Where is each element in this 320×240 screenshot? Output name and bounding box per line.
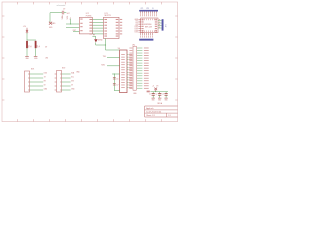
connector SV2 box [57,71,62,93]
X4 pin name [121,76,125,79]
svg-text:TX: TX [44,76,46,78]
svg-text:GND: GND [71,88,75,90]
connector X4 box [120,50,127,93]
wire [73,31,79,33]
pin label [153,14,156,16]
pin name [155,29,157,32]
title block left [144,106,146,117]
pin label [149,35,152,37]
pin name [141,25,143,28]
svg-text:SDA: SDA [71,71,74,74]
frame tick bottom 7 [113,119,115,121]
svg-text:VCC: VCC [67,13,71,15]
frame tick top 10 [161,2,163,4]
JP2 pin name [129,84,132,87]
header pin [141,33,143,35]
ground [152,97,155,99]
frame tick top 5 [81,2,83,4]
ground [34,56,38,58]
frame tick right 3 [175,57,177,59]
pin label [143,14,146,16]
SV2 left stub [55,85,57,87]
wire [92,18,103,20]
pin number [141,30,144,32]
IC2 pin name [89,21,92,24]
IC2 pin name [89,18,92,21]
pin header JP4 bar [162,19,164,30]
pin label [143,35,146,37]
svg-text:Sheet: 1/1: Sheet: 1/1 [146,114,155,117]
JP2 net label [137,67,142,70]
pin number [149,19,152,21]
frame tick top 7 [113,2,115,4]
X4 pin label [129,63,132,66]
svg-text:RX: RX [44,80,46,82]
JP2 net label [137,79,142,82]
frame tick bottom 5 [81,119,83,121]
frame tick right 5 [175,99,177,101]
svg-text:C6: C6 [116,78,118,80]
pin label [155,14,158,16]
svg-text:1/1: 1/1 [168,115,171,117]
frame tick bottom 2 [33,119,35,121]
IC3 pin label right [120,32,122,35]
header pin [139,11,141,13]
X4 pin stub [127,84,129,86]
JP2 net label [137,77,142,80]
U1 left pin [138,26,140,28]
wire [66,23,79,25]
IC3 pin name [104,18,107,21]
svg-text:GND: GND [158,99,161,101]
wire [112,73,120,75]
X4 pin stub [127,54,129,56]
pin number [159,26,160,29]
IC2 pin name [80,29,82,32]
X4 pin name [121,73,125,76]
IC3 pin label right [120,24,122,27]
svg-text:+3: +3 [152,85,154,87]
svg-text:GND: GND [26,58,30,60]
X4 pin label [129,66,132,69]
svg-text:SCL: SCL [67,16,69,20]
pin number [159,23,160,26]
svg-text:SCL: SCL [71,76,74,78]
svg-text:JP1: JP1 [140,8,143,10]
wire [62,85,71,87]
JP2 pin name [129,52,132,55]
IC2 pin name [89,30,92,33]
SV2 left stub [55,81,57,83]
wire [165,92,167,94]
svg-text:5V: 5V [71,84,73,86]
JP2 value label [144,82,149,85]
wire [92,24,103,26]
supply +3V3 arrow [154,88,157,91]
JP2 value label [144,47,149,50]
header pin [147,33,149,35]
JP2 pin name [129,77,132,80]
X4 pin label [129,53,132,56]
svg-text:REV A: REV A [157,102,163,105]
svg-text:GND: GND [152,99,155,101]
pin label [141,35,144,37]
junction [70,23,71,24]
wire [70,19,72,24]
U1 left pin [138,24,140,26]
wire [96,44,106,46]
header pin [153,11,155,13]
pin label [151,14,154,16]
IC3 pin label right [120,18,122,21]
pin name [155,22,157,25]
wire [66,27,79,29]
pin number [155,19,158,21]
X4 pin label [129,71,132,74]
JP2 value label [144,77,149,80]
capacitor C1 [152,93,155,95]
SV2 pin [60,77,61,80]
JP2 value label [144,84,149,87]
svg-text:C7: C7 [116,84,118,86]
wire [158,20,162,22]
X4 pin stub [127,59,129,61]
pin name [155,25,157,28]
JP2 net label [137,72,142,75]
pin name [141,20,143,23]
X4 pin stub [127,66,129,68]
wire [62,77,71,79]
JP2 pin name [129,87,132,90]
pin number [153,30,156,32]
svg-text:1k: 1k [30,46,32,48]
pin name [155,27,157,30]
svg-text:IO12: IO12 [135,26,139,28]
JP2 pin name [129,62,132,65]
JP2 net label [137,57,142,60]
wire [150,91,168,93]
IC3 pin name [104,30,107,33]
svg-text:GND: GND [44,88,48,90]
wire [106,49,120,51]
SV2 pin [60,85,61,88]
frame tick right 2 [175,36,177,38]
frame tick bottom 9 [145,119,147,121]
wire [95,36,97,39]
SV1 pin [28,73,29,76]
JP2 value label [144,54,149,57]
X4 pin stub [127,56,129,58]
frame tick bottom 6 [97,119,99,121]
pin name [155,23,157,26]
pin name [141,31,143,34]
frame border [2,2,178,122]
IC2 pin name [89,32,92,35]
svg-text:ESP-12E: ESP-12E [145,27,153,29]
wire [105,39,107,51]
SV2 pin [60,89,61,92]
module U1 box [141,18,158,33]
X4 pin label [129,76,132,79]
pin label [151,35,154,37]
frame tick left 2 [2,36,4,38]
wire [159,92,161,94]
X4 pin stub [127,79,129,81]
IC3 pin name [104,32,107,35]
wire [158,25,162,27]
svg-text:GND: GND [52,23,57,25]
wire [62,81,71,83]
JP2 pin name [129,59,132,62]
IC2 pin name [80,25,82,28]
ground arrow [94,39,97,42]
wire [158,22,162,24]
svg-text:GND: GND [76,71,80,73]
svg-text:GND: GND [34,58,38,60]
pin label [145,14,148,16]
svg-text:MCP23: MCP23 [105,15,111,17]
JP2 net label [137,59,142,62]
wire [92,33,103,35]
frame tick bottom 3 [49,119,51,121]
wire [152,95,154,97]
svg-text:IO15: IO15 [135,32,139,34]
frame tick left 3 [2,57,4,59]
U1 left pin [138,20,140,22]
pin number [93,33,94,36]
pin label [139,35,142,37]
JP2 value label [144,59,149,62]
IC3 pin name right [116,32,119,35]
JP2 pin name [129,74,132,77]
capacitor C9 [61,11,63,15]
frame tick top 9 [145,2,147,4]
pin number [151,19,154,21]
JP2 value label [144,62,149,65]
X4 pin name [121,79,125,82]
JP2 net label [137,49,142,52]
header pin [143,33,145,35]
frame tick top 3 [49,2,51,4]
wire [113,74,115,91]
header pin [143,11,145,13]
frame tick right 4 [175,78,177,80]
JP2 value label [144,52,149,55]
pin name [141,29,143,32]
SV1 pin [28,89,29,92]
JP2 value label [144,79,149,82]
X4 pin stub [127,76,129,78]
pin label [149,14,152,16]
svg-text:GND: GND [165,99,168,101]
connector SV1 box [25,71,30,92]
X4 pin label [129,84,132,87]
X4 pin name [121,56,125,59]
svg-text:C3: C3 [162,94,164,96]
IC3 pin label right [120,27,122,30]
svg-text:5V: 5V [45,46,48,48]
supply arrow down [49,22,52,25]
SV2 pin [60,81,61,84]
frame tick top 6 [97,2,99,4]
svg-text:IO13: IO13 [135,28,139,30]
wire [49,13,51,23]
svg-text:SV2: SV2 [62,68,65,70]
svg-text:DGND: DGND [98,39,104,41]
IC3 pin label right [120,30,122,33]
wire [92,30,103,32]
U1 left pin [138,29,140,31]
pin number [151,30,154,32]
svg-text:IO5: IO5 [135,24,138,26]
pin number [149,30,152,32]
X4 pin name [121,81,125,84]
pin label [139,14,142,16]
wire [62,89,71,91]
svg-text:PCF85: PCF85 [86,15,92,17]
svg-text:JP4: JP4 [165,24,167,27]
frame tick top 8 [129,2,131,4]
title block cell divider [166,113,168,117]
JP2 pin name [129,47,132,50]
net label [147,91,150,93]
wire [152,92,154,94]
X4 pin name [121,53,125,56]
X4 pin name [121,58,125,61]
JP2 pin name [129,82,132,85]
wire [92,21,103,23]
wire [26,33,28,40]
JP2 value label [144,57,149,60]
X4 pin label [129,86,132,89]
U1 left pin [138,31,140,33]
junction [155,91,156,92]
wire [158,27,162,29]
IC2 pin name [80,22,82,25]
header pin [139,33,141,35]
IC3 pin name [104,24,107,27]
svg-text:LED: LED [45,57,49,59]
X4 pin name [121,84,125,87]
pin number [147,19,150,21]
header pin [141,11,143,13]
U1 left pin [138,27,140,29]
IC3 pin label right [120,21,122,24]
X4 pin name [121,68,125,71]
capacitor C3 [165,93,168,95]
svg-text:GND: GND [49,27,53,29]
header pin [151,11,153,13]
wire [107,57,120,59]
pin name [155,20,157,23]
svg-text:TXD: TXD [103,56,107,58]
X4 pin label [129,68,132,71]
svg-text:C9: C9 [63,9,65,11]
X4 pin name [121,61,125,64]
frame tick left 1 [2,15,4,17]
pin number [159,18,160,21]
frame tick bottom 1 [17,119,19,121]
IC3 pin name right [116,24,119,27]
svg-text:GND: GND [133,93,137,95]
header pin [145,33,147,35]
wire [35,48,37,56]
title block top [145,105,178,107]
capacitor C7 [113,82,116,84]
svg-text:IO2: IO2 [135,21,138,23]
IC3 pin name [116,35,119,38]
svg-text:AppLock: AppLock [146,107,153,110]
U1 left pin [138,18,140,20]
X4 pin label [129,61,132,64]
wire [165,95,167,97]
svg-text:SV1: SV1 [31,69,34,71]
X4 pin stub [127,69,129,71]
resistor R2 [35,41,37,48]
wire [64,12,66,14]
pin number [145,19,148,21]
wire [30,89,44,91]
pin number [143,30,146,32]
pin name [141,18,143,21]
capacitor C6 [113,76,116,78]
svg-text:X4: X4 [118,48,120,50]
svg-text:IO16: IO16 [44,72,47,74]
frame tick bottom 4 [65,119,67,121]
pin number [159,21,160,24]
wire [107,65,120,67]
JP2 net label [137,84,142,87]
JP2 net label [137,69,142,72]
svg-text:schematic: schematic [57,4,66,7]
title block divider [145,112,178,114]
resistor R1 [26,41,28,48]
JP2 net label [137,52,142,55]
X4 pin label [129,73,132,76]
IC3 pin name [104,27,107,30]
JP2 value label [144,87,149,90]
wire [159,95,161,97]
pin number [153,19,156,21]
ground [164,97,167,99]
pin name [155,18,157,21]
pin name [141,23,143,26]
X4 pin name [121,71,125,74]
IC3 pin name [104,21,107,24]
wire [27,39,36,41]
wire [30,77,44,79]
SV2 left stub [55,89,57,91]
JP2 pin name [129,57,132,60]
pin number [145,30,148,32]
pin number [141,19,144,21]
JP2 pin name [129,49,132,52]
IC3 pin name right [116,21,119,24]
IC3 pin name right [116,30,119,33]
pin label [141,14,144,16]
header pin [147,11,149,13]
wire [95,43,97,46]
pin number [147,30,150,32]
IC2 pin name [89,27,92,30]
SV1 pin [28,77,29,80]
frame tick left 4 [2,78,4,80]
wire [50,12,62,14]
JP2 net label [137,62,142,65]
X4 pin stub [127,64,129,66]
ground [25,56,29,58]
wire [30,81,44,83]
